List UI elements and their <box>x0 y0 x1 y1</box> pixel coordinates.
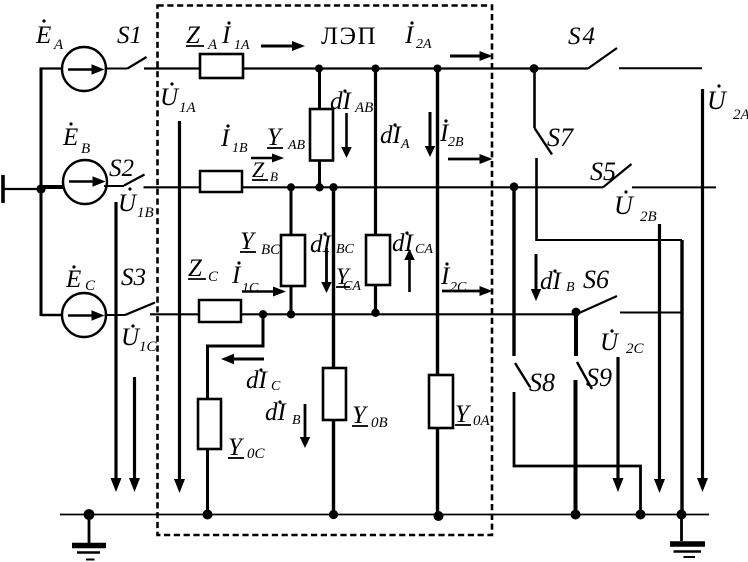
label ЛЭП <box>321 23 377 50</box>
wire Y_BC lower <box>290 286 293 314</box>
svg-text:0A: 0A <box>473 413 491 429</box>
wire S9 lower to ground <box>574 380 578 515</box>
label S4 <box>568 23 597 50</box>
label U_2B <box>614 190 657 225</box>
label I_1B <box>220 124 248 156</box>
svg-text:S9: S9 <box>586 363 612 392</box>
svg-text:2B: 2B <box>448 135 464 150</box>
svg-text:ЛЭП: ЛЭП <box>321 23 377 50</box>
current arrow I_1A <box>261 41 305 51</box>
wire bus to source E_B <box>41 185 64 189</box>
label Y_0B <box>352 402 388 431</box>
svg-text:1A: 1A <box>179 100 197 116</box>
label S3 <box>121 264 146 291</box>
voltage arrow U_1B <box>111 202 122 492</box>
label S6 <box>583 265 609 294</box>
label Y_0C <box>228 434 266 462</box>
switch S2 blade <box>124 175 145 186</box>
node phase C - S9 branch <box>572 308 581 317</box>
wire S8 upper (from phase B) <box>512 187 515 356</box>
label S5 <box>590 157 616 186</box>
svg-text:1C: 1C <box>242 281 259 296</box>
admittance Y_0A <box>429 375 453 428</box>
label Y_BC <box>240 228 281 258</box>
label E_A <box>35 19 64 53</box>
svg-text:C: C <box>208 269 219 285</box>
label I_2B <box>439 119 464 150</box>
wire E_C to switch S3 <box>105 314 126 316</box>
label dI_B upper <box>540 268 575 295</box>
wire Y_0A lower <box>436 428 439 515</box>
wire Y_AB upper <box>318 69 321 110</box>
wire S8 lower to ground <box>514 392 641 515</box>
node phase A - S7 branch <box>530 64 539 73</box>
svg-text:CA: CA <box>343 279 361 294</box>
label S2 <box>109 155 134 182</box>
node phase C - Y_CA branch <box>371 309 379 317</box>
svg-text:dI: dI <box>540 268 563 295</box>
node phase C - Y_0C branch <box>259 310 267 318</box>
node phase B - Y_AB branch <box>315 183 323 191</box>
svg-text:S2: S2 <box>109 155 134 182</box>
label S8 <box>529 368 555 397</box>
switch S8 blade <box>515 363 530 387</box>
admittance Y_0B <box>323 368 346 420</box>
svg-text:B: B <box>270 169 278 184</box>
ground node S7 <box>677 510 687 520</box>
svg-text:U: U <box>707 86 728 115</box>
label U_2A <box>707 84 748 123</box>
switch S4 blade <box>588 48 617 69</box>
svg-text:C: C <box>85 278 96 294</box>
wire Y_0C lower <box>206 449 209 515</box>
svg-text:U: U <box>160 84 180 111</box>
wire phase B right of S5 <box>632 186 716 188</box>
label I_2A <box>404 21 432 52</box>
resistor Z_C <box>199 300 241 322</box>
svg-text:CA: CA <box>415 242 433 257</box>
switch S9 blade <box>577 362 592 389</box>
wire phase C from S3 to S6 <box>150 313 577 315</box>
current arrow I_1B <box>251 154 284 163</box>
switch S7 blade <box>535 128 553 155</box>
current arrow I_2C <box>442 286 493 296</box>
wire Y_0B (phase B down to ground) <box>332 187 335 368</box>
label Z_A <box>186 22 218 53</box>
admittance Y_BC <box>281 235 305 286</box>
source E_B <box>63 160 107 204</box>
voltage arrow U_2C <box>613 357 624 492</box>
ground symbol right <box>670 515 705 558</box>
admittance Y_CA <box>366 235 390 285</box>
switch S3 blade <box>125 303 155 316</box>
label dI_A <box>380 122 410 152</box>
admittance Y_0C <box>198 399 221 449</box>
source E_A <box>62 47 106 91</box>
svg-text:2C: 2C <box>626 341 645 357</box>
node phase B - Y_BC branch <box>287 183 295 191</box>
label Z_B <box>252 157 278 184</box>
svg-text:S1: S1 <box>117 22 142 49</box>
svg-text:1A: 1A <box>234 38 250 53</box>
current arrow I_2B <box>448 154 493 164</box>
svg-text:U: U <box>118 190 138 217</box>
wire phase A right of S4 <box>619 67 702 69</box>
svg-text:Z: Z <box>252 157 265 182</box>
ground symbol left <box>72 515 106 560</box>
svg-text:1C: 1C <box>139 339 158 355</box>
wire terminal to bus <box>3 188 41 190</box>
svg-text:2B: 2B <box>640 209 657 225</box>
current arrow dI_CA <box>404 249 415 292</box>
svg-text:AB: AB <box>354 100 373 116</box>
svg-text:dI: dI <box>380 122 403 149</box>
svg-text:dI: dI <box>310 231 333 258</box>
svg-text:dI: dI <box>265 399 288 426</box>
wire bus to source E_C <box>41 314 63 316</box>
label I_1A <box>221 21 250 53</box>
svg-text:0B: 0B <box>371 415 388 431</box>
svg-text:B: B <box>566 280 575 295</box>
svg-text:Z: Z <box>188 255 203 282</box>
resistor Z_B <box>200 171 242 192</box>
wire Y_BC upper <box>290 187 293 235</box>
current arrow dI_A <box>425 112 436 157</box>
current arrow I_2A <box>450 51 493 61</box>
wire Y_CA upper (phase A down to Y_CA) <box>374 69 377 236</box>
input terminal bar <box>1 175 5 203</box>
svg-text:1B: 1B <box>232 141 248 156</box>
wire S9 upper (from phase C) <box>574 312 578 356</box>
svg-text:dI: dI <box>246 367 269 394</box>
wire phase C right of S6 <box>620 312 683 314</box>
ground node Y_0A <box>434 511 444 521</box>
svg-text:BC: BC <box>336 242 355 257</box>
current arrow dI_BC <box>321 248 332 293</box>
svg-text:E: E <box>35 22 51 49</box>
current arrow dI_B upper <box>531 254 542 301</box>
current arrow dI_B lower <box>300 404 311 448</box>
label U_1B <box>118 187 154 221</box>
admittance Y_AB <box>310 109 333 161</box>
svg-text:0C: 0C <box>247 446 266 462</box>
svg-text:A: A <box>400 137 410 152</box>
wire phase A from S1 to S4 <box>144 67 588 69</box>
label dI_AB <box>330 88 373 116</box>
current arrow dI_C <box>221 354 264 365</box>
wire phase B from S2 to S5 <box>144 186 604 188</box>
svg-text:1B: 1B <box>137 205 154 221</box>
ground bus wire <box>60 514 709 516</box>
svg-text:U: U <box>614 191 635 220</box>
label U_2C <box>600 329 645 357</box>
wire S7 lower to ground <box>536 158 683 515</box>
ground node S9 <box>571 510 581 520</box>
voltage arrow U_2B <box>654 224 665 493</box>
node phase C - Y_BC branch <box>287 310 295 318</box>
svg-text:S4: S4 <box>568 23 597 50</box>
label Y_0A <box>455 401 491 429</box>
svg-text:B: B <box>292 413 301 428</box>
svg-text:C: C <box>271 379 281 394</box>
label U_1A <box>160 82 197 116</box>
svg-text:2C: 2C <box>450 280 467 295</box>
node phase B - S8 branch <box>510 182 519 191</box>
voltage arrow U_1C <box>129 377 140 492</box>
node phase A - Y_CA branch <box>372 65 380 73</box>
ground node Y_0C <box>203 510 213 520</box>
svg-text:A: A <box>207 37 218 53</box>
ground node Y_0B <box>329 510 338 519</box>
svg-text:Z: Z <box>186 22 201 49</box>
svg-text:S6: S6 <box>583 265 609 294</box>
wire Y_0C upper (L-shaped from phase C) <box>208 314 264 399</box>
svg-text:BC: BC <box>261 242 281 258</box>
node phase A - Y_0A branch <box>434 65 442 73</box>
wire bus to source E_A <box>40 67 63 69</box>
label dI_C <box>246 367 281 394</box>
svg-text:U: U <box>600 329 620 356</box>
svg-text:S5: S5 <box>590 157 616 186</box>
wire Y_AB lower <box>318 161 321 188</box>
resistor Z_A <box>200 54 243 78</box>
wire E_A to switch S1 <box>105 68 128 70</box>
switch S5 blade <box>603 164 632 187</box>
current arrow dI_AB <box>341 113 352 158</box>
wire E_B to switch S2 <box>104 185 124 187</box>
svg-text:S7: S7 <box>547 123 574 152</box>
label U_1C <box>121 324 158 355</box>
label dI_CA <box>392 230 433 257</box>
label dI_BC <box>310 231 355 258</box>
bus wire vertical <box>40 68 43 317</box>
wire Y_0A (phase A down to ground) <box>436 69 439 376</box>
label Z_C <box>188 255 219 285</box>
label Y_CA <box>336 264 361 294</box>
svg-text:S8: S8 <box>529 368 555 397</box>
label I_2C <box>440 262 467 295</box>
svg-text:B: B <box>81 141 90 157</box>
switch S1 blade <box>128 57 147 69</box>
voltage arrow U_1A <box>174 121 185 493</box>
switch S6 blade <box>578 296 617 314</box>
label S1 <box>117 22 142 49</box>
wire Y_0B lower <box>332 420 335 515</box>
source E_C <box>62 293 106 337</box>
svg-text:2A: 2A <box>416 37 432 52</box>
svg-text:2A: 2A <box>733 107 748 123</box>
ground node S8 <box>636 510 646 520</box>
wire Y_CA lower <box>374 285 377 313</box>
node phase B - Y_0B branch <box>329 183 337 191</box>
svg-text:AB: AB <box>287 138 306 153</box>
current arrow I_1C <box>242 287 286 297</box>
svg-text:E: E <box>65 266 81 293</box>
dashed box: transmission line ЛЭП boundary <box>158 6 493 536</box>
label Y_AB <box>267 124 306 153</box>
svg-text:A: A <box>53 37 64 53</box>
label dI_B lower <box>265 399 301 428</box>
svg-text:U: U <box>121 324 141 351</box>
ground node left <box>84 509 95 520</box>
wire S7 upper (from phase A) <box>533 69 536 129</box>
svg-text:S3: S3 <box>121 264 146 291</box>
svg-text:dI: dI <box>330 88 353 115</box>
node bus - phase B <box>36 184 45 193</box>
label I_1C <box>231 261 259 296</box>
node phase A - Y_AB branch <box>315 65 323 73</box>
label S7 <box>547 123 574 152</box>
label E_B <box>62 122 90 157</box>
svg-text:E: E <box>62 124 78 151</box>
svg-text:dI: dI <box>392 230 415 257</box>
label S9 <box>586 363 612 392</box>
label E_C <box>65 265 96 294</box>
voltage arrow U_2A <box>697 89 708 492</box>
